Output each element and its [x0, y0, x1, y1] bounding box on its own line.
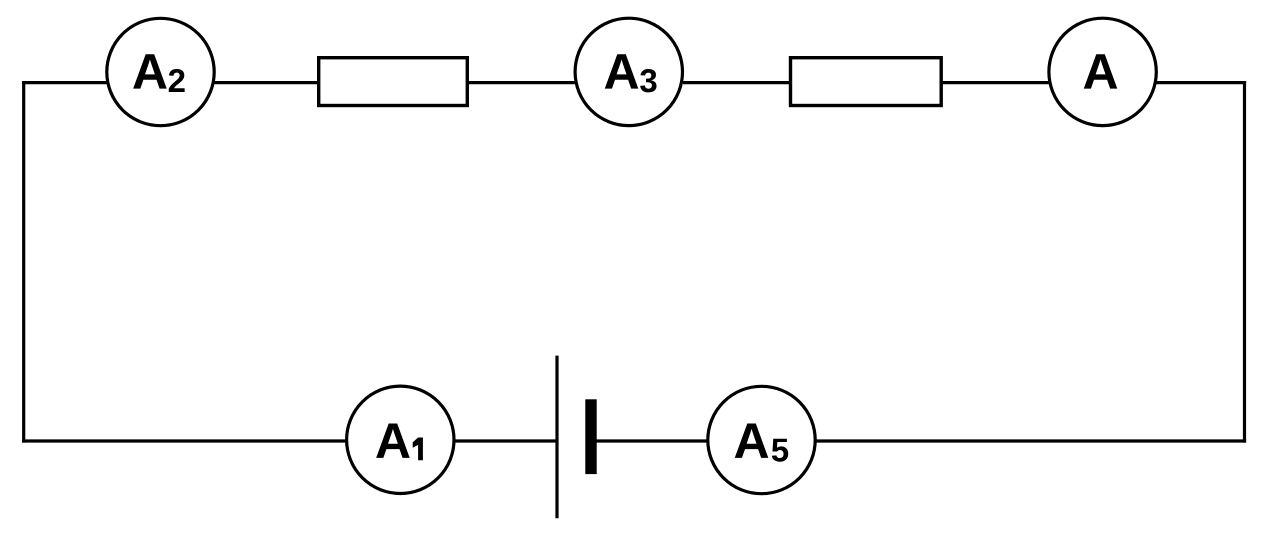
ammeter A2 [107, 18, 214, 125]
wire left vertical [22, 81, 25, 443]
resistor R1 [319, 58, 468, 106]
wire top segment 6 (A to right corner) [1156, 81, 1246, 84]
resistor R2 [791, 58, 942, 106]
wire top segment 2 (A2 to R1) [214, 81, 318, 84]
wire top segment 3 (R1 to A3) [468, 81, 575, 84]
wire top segment 4 (A3 to R2) [683, 81, 790, 84]
ammeter A3 [575, 18, 682, 125]
wire bottom segment 4 (A5 to right corner) [814, 439, 1246, 442]
wire top segment 1 (corner to A2) [22, 81, 107, 84]
ammeter A [1049, 18, 1156, 125]
wire bottom segment 3 (battery to A5) [596, 439, 709, 442]
wire top segment 5 (R2 to A) [942, 81, 1050, 84]
battery cell short thick plate (negative) [585, 399, 596, 474]
wire bottom segment 2 (A1 to battery) [453, 439, 557, 442]
ammeter A1 [347, 386, 454, 493]
wire bottom segment 1 (corner to A1) [22, 439, 348, 442]
ammeter A5 [708, 386, 815, 493]
wire right vertical [1243, 81, 1246, 443]
battery cell long plate (positive) [555, 356, 558, 519]
